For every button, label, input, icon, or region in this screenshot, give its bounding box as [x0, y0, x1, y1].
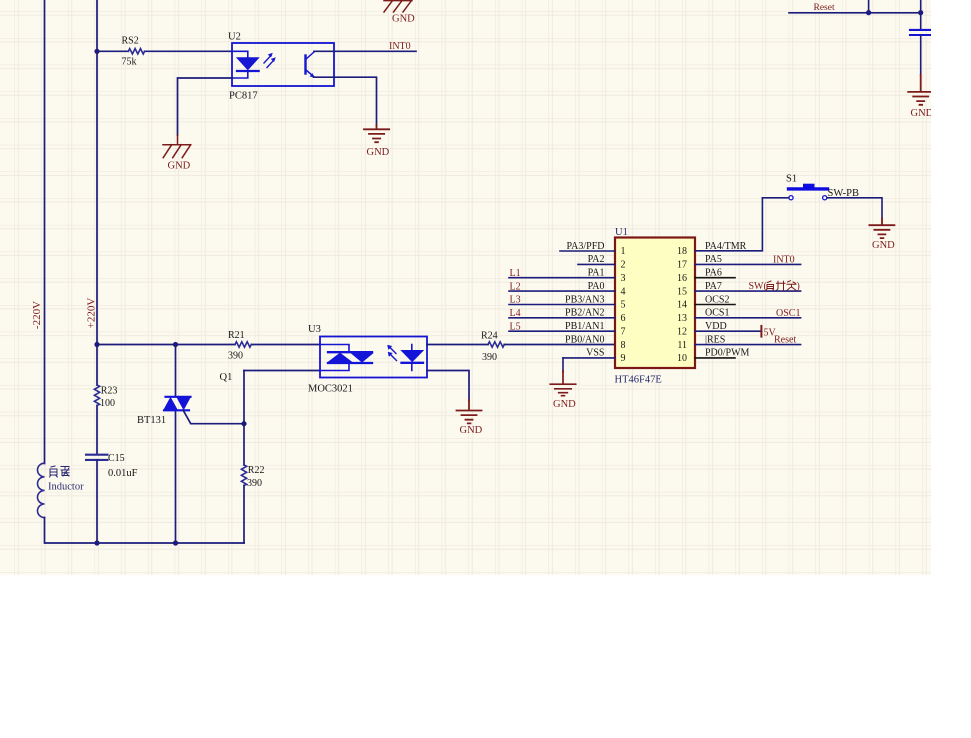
svg-text:BT131: BT131 [137, 415, 166, 426]
svg-text:5: 5 [621, 300, 626, 311]
ground earth under U3 [457, 400, 482, 423]
svg-text:Q1: Q1 [220, 372, 233, 383]
svg-text:6: 6 [621, 313, 626, 324]
svg-text:390: 390 [228, 350, 243, 361]
svg-text:PC817: PC817 [229, 91, 258, 102]
svg-text:L3: L3 [510, 295, 521, 306]
svg-text:OCS2: OCS2 [705, 294, 729, 305]
svg-text:12: 12 [677, 326, 687, 337]
svg-text:|RES: |RES [705, 334, 725, 345]
resistor R22 [241, 465, 246, 486]
wire S1 right to GND [827, 198, 882, 219]
svg-text:GND: GND [553, 399, 576, 410]
svg-text:): ) [797, 281, 800, 292]
svg-text:9: 9 [621, 353, 626, 364]
pin 9 wire VSS [563, 357, 615, 359]
pin 7 wire [509, 330, 615, 332]
resistor R21 [235, 342, 251, 347]
svg-text:OSC1: OSC1 [776, 308, 800, 319]
U2 transistor [304, 56, 306, 74]
U2 light arrows [264, 55, 274, 67]
svg-text:Reset: Reset [814, 3, 835, 13]
svg-text:SW(: SW( [749, 281, 768, 292]
pin 1 wire [560, 250, 615, 252]
svg-text:11: 11 [677, 340, 687, 351]
U3 photo-triac [320, 345, 373, 371]
pin 5 wire [509, 304, 615, 306]
svg-text:VSS: VSS [586, 348, 604, 359]
svg-text:14: 14 [677, 300, 687, 311]
ground earth top right [908, 75, 933, 105]
wire RS2 row [97, 50, 232, 52]
svg-text:390: 390 [482, 352, 497, 363]
svg-text:Reset: Reset [774, 335, 796, 346]
svg-text:U3: U3 [308, 324, 321, 335]
svg-text:GND: GND [392, 14, 415, 25]
wire -220V to bottom rail [45, 518, 245, 543]
svg-text:75k: 75k [122, 57, 137, 68]
U2 LED diode [232, 51, 248, 78]
svg-text:10: 10 [677, 353, 687, 364]
capacitor C (reset) [920, 13, 922, 29]
schematic sheet background [0, 0, 931, 575]
svg-text:R21: R21 [228, 330, 245, 341]
pin 10 stub [695, 357, 735, 359]
U1 left pin numbers [621, 246, 626, 364]
svg-text:PA7: PA7 [705, 281, 722, 292]
label 负载 [50, 466, 70, 477]
svg-text:GND: GND [911, 108, 934, 119]
opto-triac U3 box [320, 337, 427, 378]
svg-text:L4: L4 [510, 308, 521, 319]
svg-text:GND: GND [872, 240, 895, 251]
ground earth under U2 right [364, 125, 389, 142]
U1 left pin names [565, 241, 604, 359]
svg-text:17: 17 [677, 260, 687, 271]
svg-text:2: 2 [621, 260, 626, 271]
U2 left lower pin wire [178, 78, 233, 135]
pin 16 stub [695, 277, 735, 279]
svg-text:16: 16 [677, 273, 687, 284]
U1 right pin numbers [677, 246, 687, 364]
net labels L1-L5 [510, 268, 521, 333]
wire stub up x921 [920, 0, 922, 13]
ground earth under S1 [869, 219, 894, 239]
power bar 5V [760, 326, 762, 337]
svg-text:HT46F47E: HT46F47E [615, 375, 662, 386]
node junction at bottom rail x97 [94, 540, 99, 545]
wire stub up x868.6 [868, 0, 870, 13]
svg-text:PD0/PWM: PD0/PWM [705, 348, 750, 359]
U2 pin collector to INT0 [314, 50, 416, 52]
svg-text:R24: R24 [481, 331, 498, 342]
wire R22 to bottom rail [243, 485, 245, 543]
wire main row to R21 [97, 344, 320, 346]
pin 11 wire Reset [695, 344, 801, 346]
pin 13 wire OSC1 [695, 317, 801, 319]
node junction at RS2 row [94, 49, 99, 54]
wire BT131 gate [184, 411, 245, 424]
U2 emitter wire to GND [314, 77, 377, 125]
wire U3 lower-left pin down [243, 371, 245, 466]
svg-text:390: 390 [247, 478, 262, 489]
U1 right pin names [705, 241, 750, 359]
svg-text:PB0/AN0: PB0/AN0 [565, 334, 604, 345]
svg-text:1: 1 [621, 246, 626, 257]
transistor triac BT131 [164, 397, 191, 411]
svg-text:INT0: INT0 [389, 41, 411, 52]
svg-text:4: 4 [621, 286, 626, 297]
svg-text:L5: L5 [510, 321, 521, 332]
svg-text:GND: GND [460, 425, 483, 436]
op-coupler U2 box [232, 43, 334, 86]
node junction at bottom rail x175.5 [173, 540, 178, 545]
resistor RS2 [128, 49, 144, 54]
inductor L (load) [37, 463, 44, 517]
svg-text:Inductor: Inductor [48, 482, 84, 493]
S1 contact circles [789, 196, 793, 200]
svg-text:R22: R22 [248, 465, 265, 476]
svg-text:8: 8 [621, 340, 626, 351]
svg-text:18: 18 [677, 246, 687, 257]
svg-text:100: 100 [100, 398, 115, 409]
U3 light arrows [390, 347, 397, 361]
pin 2 wire [578, 263, 615, 265]
pin 3 wire [509, 277, 615, 279]
wire U3 bottom-right to GND [427, 371, 469, 401]
svg-text:GND: GND [168, 161, 191, 172]
svg-text:R23: R23 [101, 386, 118, 397]
pin 18 wire to S1 [695, 198, 762, 251]
pin 12 wire VDD to 5V [695, 330, 761, 332]
pin 4 wire [509, 290, 615, 292]
wire +220V rail vertical [96, 0, 98, 455]
node junction Reset x921 [918, 10, 923, 15]
svg-text:S1: S1 [786, 174, 797, 185]
svg-text:U2: U2 [228, 31, 241, 42]
wire S1 left leg [762, 197, 788, 199]
svg-text:L2: L2 [510, 281, 521, 292]
svg-text:RS2: RS2 [122, 35, 139, 46]
wire U3 top-right to R24 [427, 344, 488, 346]
pin 6 wire [509, 317, 615, 319]
svg-text:PA1: PA1 [588, 268, 605, 279]
svg-text:PB1/AN1: PB1/AN1 [565, 321, 604, 332]
ground chassis under U2 left [163, 135, 191, 158]
svg-text:L1: L1 [510, 268, 521, 279]
svg-text:PA6: PA6 [705, 268, 722, 279]
svg-text:7: 7 [621, 326, 626, 337]
wire BT131 branch vertical [175, 345, 177, 544]
pin 17 wire INT0 [695, 263, 801, 265]
svg-text:VDD: VDD [705, 321, 727, 332]
wire -220V rail vertical [44, 0, 46, 464]
IC U1 HT46F47E body [615, 238, 695, 369]
wire R24 to U1 pin8 [504, 344, 615, 346]
svg-text:MOC3021: MOC3021 [308, 384, 353, 395]
svg-text:C15: C15 [108, 453, 125, 464]
svg-text:PB3/AN3: PB3/AN3 [565, 294, 604, 305]
U3 LED [402, 345, 424, 371]
svg-text:PA3/PFD: PA3/PFD [567, 241, 605, 252]
node junction at main row [94, 342, 99, 347]
svg-text:+220V: +220V [86, 298, 98, 329]
svg-text:0.01uF: 0.01uF [108, 468, 138, 479]
svg-text:15: 15 [677, 286, 687, 297]
white mask right [931, 0, 971, 738]
svg-text:U1: U1 [615, 227, 628, 238]
svg-text:OCS1: OCS1 [705, 308, 729, 319]
resistor R24 [488, 342, 504, 347]
resistor R23 [94, 385, 99, 406]
node junction gate/R22 [241, 421, 246, 426]
ground earth under VSS [550, 371, 575, 396]
svg-text:PA2: PA2 [588, 254, 605, 265]
pin 15 wire SW [695, 290, 801, 292]
svg-text:PB2/AN2: PB2/AN2 [565, 308, 604, 319]
pin 14 stub [695, 304, 735, 306]
ground chassis top (cut off) [384, 1, 412, 12]
svg-text:INT0: INT0 [773, 254, 795, 265]
svg-text:13: 13 [677, 313, 687, 324]
svg-text:-220V: -220V [31, 301, 43, 329]
node junction main row x175.5 [173, 342, 178, 347]
svg-text:PA0: PA0 [588, 281, 605, 292]
white mask bottom [0, 575, 971, 738]
capacitor C15 [86, 455, 108, 460]
S1 actuator bar [789, 187, 828, 190]
node junction Reset x868.6 [866, 10, 871, 15]
svg-text:3: 3 [621, 273, 626, 284]
svg-text:GND: GND [367, 147, 390, 158]
svg-text:PA5: PA5 [705, 254, 722, 265]
